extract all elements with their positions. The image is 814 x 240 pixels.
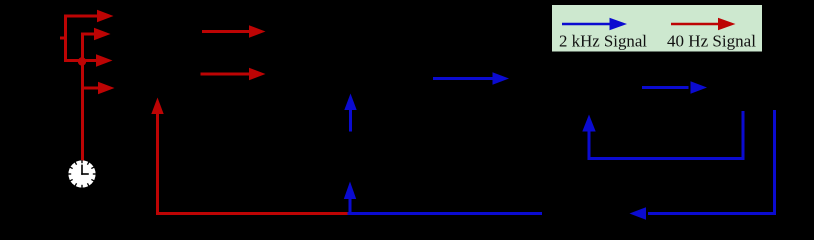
- svg-text:40 Hz Signal: 40 Hz Signal: [667, 32, 756, 51]
- svg-text:2 kHz Signal: 2 kHz Signal: [559, 32, 647, 51]
